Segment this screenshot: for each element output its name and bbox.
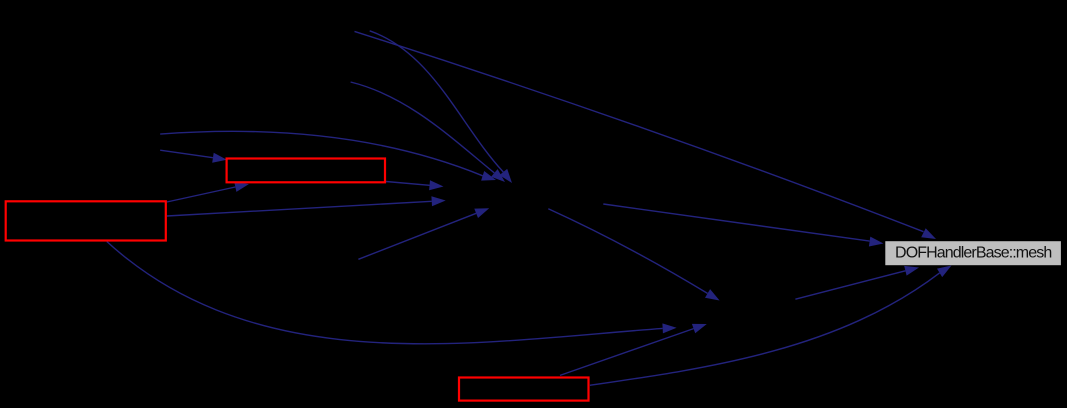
svg-text:DOFHandlerBase::mesh: DOFHandlerBase::mesh [895, 245, 1051, 262]
